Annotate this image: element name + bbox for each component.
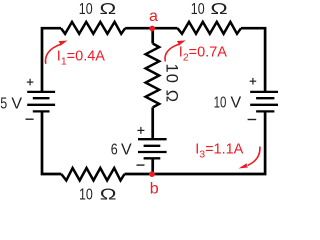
battery B3 minus sign	[137, 164, 145, 166]
svg-text:b: b	[150, 181, 159, 198]
svg-text:Ω: Ω	[100, 0, 117, 18]
node b junction dot	[149, 171, 155, 177]
node a junction dot	[149, 26, 155, 32]
battery B1 5V plates	[27, 92, 55, 112]
svg-text:V: V	[11, 95, 22, 112]
current arrow I2 curved	[165, 44, 179, 61]
wire R4 to node b	[125, 173, 153, 176]
wire R3v to battery B3	[151, 107, 154, 139]
svg-text:10: 10	[79, 1, 93, 19]
wire B1 to bottom-left corner	[42, 111, 61, 174]
svg-text:10: 10	[191, 1, 205, 19]
label B2 value 10 V	[214, 93, 242, 112]
label R1 value 10 Ohm	[79, 0, 116, 18]
resistor R3 10 ohm vertical middle	[146, 44, 160, 108]
svg-text:V: V	[231, 95, 242, 112]
battery B2 minus sign	[248, 119, 257, 121]
wire battery B3 to node b	[151, 158, 154, 174]
battery B1 minus sign	[26, 118, 34, 120]
label R4 value 10 Ohm	[79, 185, 117, 203]
wire R2 to top-right corner down to battery B2	[241, 28, 265, 92]
arrowhead I1	[59, 41, 68, 46]
svg-text:I3=1.1A: I3=1.1A	[195, 142, 243, 161]
svg-text:10: 10	[214, 93, 227, 111]
wire top-left segment	[42, 28, 61, 92]
wire B2 to bottom-right corner to node b	[153, 111, 266, 174]
battery B2 plus sign	[250, 78, 257, 85]
svg-text:Ω: Ω	[210, 1, 227, 19]
svg-text:10: 10	[79, 186, 93, 201]
svg-text:10 Ω: 10 Ω	[162, 64, 180, 104]
resistor R1 10 ohm top-left	[61, 22, 125, 34]
svg-text:6: 6	[111, 141, 118, 159]
arrowhead I3	[239, 163, 249, 168]
wire R1 to node a	[125, 27, 177, 30]
current arrow I3 curved	[248, 147, 260, 166]
battery B3 plus sign	[137, 127, 144, 134]
svg-text:a: a	[149, 8, 158, 25]
battery B1 plus sign	[27, 79, 34, 86]
current arrow I1 curved	[45, 44, 60, 63]
svg-text:I1=0.4A: I1=0.4A	[57, 49, 105, 68]
svg-text:I2=0.7A: I2=0.7A	[179, 45, 227, 64]
label B1 value 5 V	[0, 95, 22, 113]
svg-text:5: 5	[0, 95, 7, 113]
wire middle branch node a to resistor R3v	[151, 28, 154, 43]
battery B3 6V plates	[138, 139, 167, 158]
label B3 value 6 V	[111, 141, 132, 159]
resistor R2 10 ohm top-right	[178, 22, 242, 34]
battery B2 10V plates	[250, 92, 280, 112]
resistor R4 10 ohm bottom	[61, 168, 124, 180]
label R2 value 10 Ohm	[191, 1, 228, 19]
arrowhead I2	[177, 40, 186, 45]
svg-text:Ω: Ω	[100, 185, 117, 201]
svg-text:V: V	[121, 141, 132, 158]
